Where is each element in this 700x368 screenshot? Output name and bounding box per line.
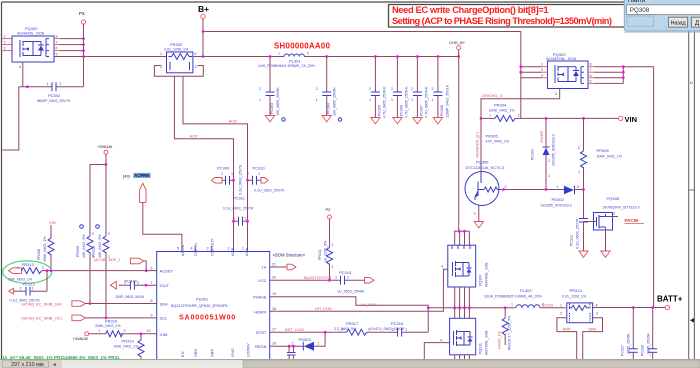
- dialog button back: [668, 17, 687, 27]
- PQ302 pin 3 wire: [3, 50, 13, 52]
- svg-text:1U_0603_25V6K: 1U_0603_25V6K: [337, 290, 365, 294]
- svg-text:PU301: PU301: [196, 297, 209, 302]
- svg-text:3: 3: [195, 65, 197, 69]
- svg-text:PC317: PC317: [621, 345, 625, 356]
- net arrow ACPRN: [140, 183, 146, 202]
- svg-text:1: 1: [335, 276, 337, 280]
- ground PQ308: [601, 251, 610, 257]
- svg-text:1: 1: [317, 342, 319, 346]
- svg-text:2: 2: [307, 52, 309, 56]
- wire B+ top rail: [203, 32, 521, 78]
- svg-text:2: 2: [316, 87, 318, 91]
- svg-text:PC314: PC314: [125, 278, 138, 283]
- PQ303 pin5 wire: [588, 82, 595, 84]
- svg-text:1: 1: [489, 114, 491, 118]
- svg-text:3: 3: [4, 47, 6, 51]
- svg-text:1: 1: [405, 328, 407, 332]
- net arrow TP: [287, 264, 296, 270]
- svg-text:6: 6: [56, 47, 58, 51]
- svg-text:2: 2: [541, 68, 543, 72]
- capacitor PC314 100P_0603_50V8: [110, 278, 156, 299]
- svg-text:[49]: [49]: [123, 173, 130, 178]
- svg-text:DISCHG_O: DISCHG_O: [482, 93, 503, 98]
- wire PQ311 source stubs down: [454, 355, 456, 359]
- PQ306 pin2 wire: [500, 189, 547, 191]
- svg-text:2: 2: [392, 328, 394, 332]
- find dialog (top right): [624, 0, 700, 33]
- svg-text:PC318: PC318: [641, 345, 645, 356]
- wire PHASE / LX_CHG: [270, 297, 429, 308]
- svg-text:8: 8: [56, 35, 58, 39]
- capacitor PC305 4.7U_0805_25V6-K: [369, 57, 387, 119]
- svg-text:1: 1: [332, 265, 334, 269]
- ground PC304: [322, 116, 331, 122]
- PR314 sense yoke SRP/SRN: [557, 318, 577, 359]
- svg-text:17: 17: [272, 328, 276, 332]
- wire PL302 to PR314: [540, 307, 566, 309]
- PQ302 pin 4 gate wire: [22, 62, 24, 87]
- inductor PL302 10UH: [484, 288, 544, 308]
- svg-text:DH_CHG: DH_CHG: [315, 306, 332, 311]
- svg-text:SRP: SRP: [563, 327, 572, 332]
- wire ACDET row: [42, 270, 157, 272]
- svg-text:SRP: SRP: [209, 348, 214, 357]
- svg-text:5: 5: [177, 247, 179, 251]
- wire TP pin 21: [270, 266, 287, 268]
- svg-text:1: 1: [258, 172, 260, 176]
- PQ303 pin1 wire: [521, 66, 542, 68]
- svg-text:ACOK: ACOK: [180, 244, 185, 256]
- resistor PR304 200K_0402_1%: [480, 103, 521, 122]
- svg-text:9: 9: [151, 314, 153, 318]
- capacitor PC310 0.1U_0603_25V7K: [247, 166, 285, 193]
- wire VCC net BQ24727VCC1: [270, 279, 341, 281]
- svg-text:SRN: SRN: [193, 348, 198, 357]
- transistor PQ309 AO4466L_SO8 (high side): [448, 245, 489, 287]
- svg-text:PR311: PR311: [318, 249, 322, 260]
- svg-text:SCL: SCL: [160, 316, 169, 321]
- svg-text:1SS355_SOD323-2: 1SS355_SOD323-2: [540, 204, 572, 208]
- net arrow ADP_I: [130, 258, 143, 264]
- svg-text:GND: GND: [230, 348, 235, 357]
- svg-text:1: 1: [47, 82, 49, 86]
- svg-text:21: 21: [272, 263, 276, 267]
- wire P3 vertical: [83, 24, 85, 56]
- wire SDA row: [85, 303, 157, 305]
- wire CHG_B+ vertical down to PQ309: [458, 50, 460, 231]
- svg-text:2: 2: [92, 232, 94, 236]
- resistor PR309 10K_0402_5%: [76, 225, 94, 304]
- svg-text:0.047U_0603_16V7K: 0.047U_0603_16V7K: [370, 327, 405, 331]
- svg-text:2: 2: [332, 243, 334, 247]
- ground PC303: [265, 116, 274, 122]
- svg-text:6: 6: [590, 74, 592, 78]
- capacitor PC308 2200P_0402_50V1K: [432, 57, 450, 119]
- transistor PQ311 AO4466L_SO8 (low side): [450, 318, 489, 355]
- net arrow VCC: [365, 277, 375, 283]
- svg-text:1SS355_SOD323-2: 1SS355_SOD323-2: [552, 134, 556, 166]
- wire PR302 pin4 to PL301: [193, 56, 284, 58]
- svg-text:[42:48] EC_SMB_CK1: [42:48] EC_SMB_CK1: [22, 316, 64, 321]
- svg-text:2: 2: [613, 212, 615, 216]
- svg-text:AO4407AL_SO8: AO4407AL_SO8: [546, 56, 577, 61]
- svg-text:PR310: PR310: [92, 246, 96, 257]
- wire PD303 to BTST: [319, 332, 326, 346]
- PU301 top pin stubs CMPIN/CMPOUT: [194, 247, 196, 252]
- svg-text:0.1U_0603_25V7K: 0.1U_0603_25V7K: [254, 188, 285, 192]
- svg-text:1: 1: [316, 98, 318, 102]
- svg-text:_0805_25V6K: _0805_25V6K: [647, 333, 651, 357]
- svg-text:PQ306: PQ306: [476, 160, 489, 165]
- svg-text:2: 2: [137, 281, 139, 285]
- diode PD301 1SS355_SOD323-2: [531, 118, 556, 189]
- svg-text:PACIN: PACIN: [625, 218, 639, 223]
- wire BTST / BST_CHG: [270, 331, 347, 333]
- green ellipse highlight: [3, 261, 52, 283]
- svg-text:2: 2: [432, 87, 434, 91]
- svg-text:PQ309: PQ309: [479, 275, 483, 286]
- svg-text:PL301: PL301: [289, 59, 301, 64]
- svg-text:2: 2: [247, 172, 249, 176]
- svg-text:200K_0402_1%: 200K_0402_1%: [597, 154, 623, 158]
- wire ACN sense: [183, 76, 248, 251]
- svg-text:PC304: PC304: [327, 103, 331, 114]
- capacitor PC315 1U_0603_25V6K: [335, 270, 365, 293]
- net arrow ACDET left: [8, 268, 21, 274]
- svg-text:100_0805_25V6K: 100_0805_25V6K: [276, 87, 280, 116]
- diode PD302 1SS355_SOD323-2: [540, 185, 584, 208]
- svg-text:ILIM: ILIM: [160, 332, 168, 337]
- ground PC307: [413, 118, 422, 124]
- PQ303 pin2 wire: [521, 71, 542, 73]
- svg-text:10K_0402_5%: 10K_0402_5%: [82, 234, 86, 258]
- ground PC305: [371, 118, 380, 124]
- svg-text:1: 1: [391, 98, 393, 102]
- resistor PR310 10K_0402_5%: [92, 225, 110, 318]
- svg-text:8: 8: [590, 63, 592, 67]
- REGN cap stubs: [288, 346, 290, 352]
- svg-text:Назад: Назад: [671, 20, 687, 26]
- svg-text:100_0805_25V6K: 100_0805_25V6K: [333, 87, 337, 116]
- svg-text:DTC115EUA_SC70-3: DTC115EUA_SC70-3: [466, 165, 505, 170]
- net arrow EC_SMB_DA1: [72, 301, 85, 307]
- PQ302 pin 8 wire: [54, 38, 60, 40]
- capacitor PC309 0.1U_0603_25V7K: [212, 164, 243, 195]
- capacitor PC311 0.1U_0603_25V7K: [223, 195, 254, 225]
- PQ302 pin 2 wire: [3, 44, 13, 46]
- svg-text:2: 2: [245, 217, 247, 221]
- dialog group box: [627, 16, 654, 26]
- svg-text:_0805_25V6K: _0805_25V6K: [627, 333, 631, 357]
- svg-text:Д: Д: [695, 21, 699, 27]
- svg-text:2CHG: 2CHG: [542, 303, 553, 308]
- svg-text:10_1206_5%: 10_1206_5%: [324, 240, 328, 262]
- svg-text:PC308: PC308: [440, 105, 444, 116]
- svg-text:7: 7: [56, 41, 58, 45]
- PR302 sense yoke: [154, 66, 203, 77]
- svg-text:PD303: PD303: [299, 337, 312, 342]
- svg-text:+3VALW: +3VALW: [97, 144, 113, 149]
- svg-text:19: 19: [272, 292, 276, 296]
- svg-text:+3VALW: +3VALW: [73, 336, 89, 341]
- svg-text:10K_0402_5%: 10K_0402_5%: [98, 234, 102, 258]
- PQ302 pin 1 wire: [3, 38, 13, 40]
- PQ302 pin 6 wire: [54, 50, 60, 52]
- svg-text:18: 18: [272, 307, 276, 311]
- svg-text:100K_0402_1%: 100K_0402_1%: [113, 345, 139, 349]
- svg-text:PR313: PR313: [22, 262, 35, 267]
- svg-text:PQ311: PQ311: [479, 343, 483, 354]
- svg-text:AO4466L_SO8: AO4466L_SO8: [485, 263, 489, 287]
- ground PC306: [393, 118, 402, 124]
- svg-text:2: 2: [548, 159, 550, 163]
- svg-text:SH00000AA00: SH00000AA00: [274, 42, 331, 51]
- svg-text:PC311: PC311: [233, 195, 246, 200]
- svg-text:PR315 4.7_1206_5%: PR315 4.7_1206_5%: [508, 315, 512, 350]
- svg-text:ACN: ACN: [244, 247, 249, 256]
- svg-text:0.1U_0603_25V7K: 0.1U_0603_25V7K: [576, 218, 580, 249]
- svg-text:2: 2: [578, 146, 580, 150]
- pin circle B+: [201, 14, 205, 18]
- svg-text:VCC: VCC: [258, 278, 267, 283]
- svg-text:IOUT: IOUT: [160, 283, 170, 288]
- wire phase rail: [428, 307, 515, 309]
- svg-text:2: 2: [20, 287, 22, 291]
- svg-text:2200P_0402_50V1K: 2200P_0402_50V1K: [445, 84, 449, 118]
- resistor PR314 0.01_1206_1% (battery sense): [560, 288, 598, 323]
- svg-text:BST_CHG: BST_CHG: [285, 327, 304, 332]
- svg-text:PR319: PR319: [122, 339, 135, 344]
- node VIN: [619, 116, 623, 120]
- wire SCL row: [85, 317, 157, 319]
- wire PQ311 drain stubs from phase rail: [454, 308, 456, 319]
- svg-text:16: 16: [272, 342, 276, 346]
- svg-text:PR314: PR314: [570, 288, 583, 293]
- capacitor PC317 _0805_25V6K: [621, 307, 638, 359]
- svg-text:2: 2: [259, 87, 261, 91]
- svg-text:1: 1: [259, 98, 261, 102]
- svg-text:◂: ◂: [53, 362, 56, 368]
- svg-text:4: 4: [195, 52, 197, 56]
- frame tick: [689, 189, 695, 191]
- svg-text:B+: B+: [198, 4, 209, 14]
- wire B+ vertical: [202, 19, 204, 57]
- svg-text:BATT+: BATT+: [657, 295, 683, 304]
- svg-text:PC302: PC302: [48, 93, 61, 98]
- transistor PQ308 2N7002KW_SOT323-3: [584, 196, 640, 251]
- svg-text:2%OFF: 2%OFF: [540, 130, 544, 143]
- svg-text:D: D: [690, 80, 693, 85]
- resistor PR308 390K_0603_1%: [37, 225, 54, 271]
- svg-text:316K_0402_1%: 316K_0402_1%: [95, 324, 121, 328]
- capacitor PC313 0.1U_0603_25V7K: [10, 271, 48, 303]
- wire BATT+ row: [593, 307, 666, 309]
- svg-text:PC315: PC315: [339, 270, 352, 275]
- capacitor PC318 _0805_25V6K: [641, 308, 658, 360]
- svg-text:1: 1: [99, 329, 101, 333]
- svg-text:0.1U_0603_25V7K: 0.1U_0603_25V7K: [239, 164, 243, 195]
- svg-text:4.7U_0805_25V6-K: 4.7U_0805_25V6-K: [405, 86, 409, 118]
- svg-text:200K_0402_1%: 200K_0402_1%: [489, 108, 515, 112]
- svg-text:7: 7: [590, 68, 592, 72]
- svg-text:Need EC write ChargeOption() b: Need EC write ChargeOption() bit[8]=1: [392, 5, 548, 15]
- svg-text:PD301: PD301: [531, 149, 535, 160]
- svg-text:Setting (ACP to PHASE Rising T: Setting (ACP to PHASE Rising Threshold)=…: [392, 16, 612, 26]
- svg-text:VIN: VIN: [49, 220, 56, 225]
- svg-text:ACP: ACP: [230, 247, 235, 256]
- svg-text:PR302: PR302: [170, 42, 183, 47]
- svg-text:1: 1: [32, 287, 34, 291]
- PQ302 pin 5 wire / main rail to PR302: [54, 56, 167, 58]
- svg-text:N0362_1%: N0362_1%: [498, 330, 502, 349]
- diode PD303: [299, 337, 320, 351]
- svg-text:1: 1: [231, 172, 233, 176]
- svg-text:2: 2: [4, 41, 6, 45]
- svg-text:0.1U_0603_25V7K: 0.1U_0603_25V7K: [223, 207, 254, 211]
- wire PC302 to sheet edge: [3, 87, 19, 150]
- capacitor PC302 5600P_0402_25V7K: [19, 57, 84, 104]
- inductor PL301 1UH: [258, 52, 316, 68]
- svg-text:1: 1: [432, 98, 434, 102]
- svg-text:PC312: PC312: [570, 235, 574, 246]
- svg-text:6: 6: [151, 266, 153, 270]
- svg-text:PC313: PC313: [23, 281, 36, 286]
- svg-text:PL302: PL302: [520, 288, 532, 293]
- wire PL301 to CHG_B+: [304, 56, 458, 58]
- svg-text:PR309: PR309: [76, 246, 80, 257]
- svg-text:2: 2: [391, 87, 393, 91]
- transistor PQ303 AO4407AL_SO8: [546, 52, 588, 89]
- wire PQ309 source stubs to phase rail: [454, 287, 456, 308]
- svg-text:ACPRN: ACPRN: [134, 173, 149, 178]
- svg-text:PR317: PR317: [346, 321, 359, 326]
- resistor PR313 59K_0603_1%: [9, 262, 45, 282]
- svg-text:P3: P3: [79, 11, 85, 16]
- PQ303 pin3 wire: [521, 77, 542, 79]
- ground PC308: [433, 118, 442, 124]
- svg-text:AO4466L_SO8: AO4466L_SO8: [485, 331, 489, 355]
- svg-text:4: 4: [441, 265, 443, 269]
- PQ303 pin6 wire: [588, 77, 595, 79]
- svg-text:BQ24727RGRR_QFN20_3P5X3P5: BQ24727RGRR_QFN20_3P5X3P5: [171, 304, 228, 308]
- svg-text:4: 4: [440, 338, 442, 342]
- svg-text:PR316: PR316: [105, 319, 118, 324]
- PQ302 pin 7 wire: [54, 44, 60, 46]
- svg-text:PR308: PR308: [37, 249, 41, 260]
- annotation red box: [389, 5, 627, 28]
- ground PC312: [579, 251, 588, 257]
- svg-text:5: 5: [56, 53, 58, 57]
- sheet border right double line: [688, 2, 690, 359]
- svg-text:2: 2: [577, 185, 579, 189]
- resistor PR302 0.01_1206_1% (current sense): [160, 42, 197, 73]
- svg-text:ACP: ACP: [190, 134, 199, 139]
- pin circle P3: [81, 20, 85, 24]
- svg-text:1: 1: [124, 281, 126, 285]
- svg-text:1: 1: [511, 303, 513, 307]
- svg-text:PC305: PC305: [377, 105, 381, 116]
- capacitor PC304 100_0805_25V6K: [316, 57, 337, 117]
- svg-text:PD302: PD302: [552, 197, 565, 202]
- wire PQ303 to BATT+ vertical: [623, 67, 653, 308]
- svg-text:SRN: SRN: [588, 327, 597, 332]
- wire ILIM row: [120, 333, 157, 335]
- svg-text:Найти: Найти: [628, 0, 645, 4]
- svg-text:VIN: VIN: [625, 115, 638, 124]
- wire PC316 up to phase rail: [427, 308, 429, 332]
- dialog button next (cut): [691, 17, 700, 27]
- svg-text:<BOM Structure>: <BOM Structure>: [273, 252, 306, 257]
- svg-text:LODRV: LODRV: [246, 343, 251, 357]
- wire PQ311 gate: [424, 343, 449, 359]
- svg-text:3: 3: [541, 74, 543, 78]
- svg-text:1: 1: [557, 185, 559, 189]
- svg-text:REGN: REGN: [255, 344, 267, 349]
- svg-text:PC303: PC303: [270, 103, 274, 114]
- wire REGN row: [270, 345, 303, 347]
- svg-text:BTST: BTST: [256, 330, 267, 335]
- svg-text:ACN: ACN: [229, 119, 238, 124]
- capacitor PC316 0.047U_0603_16V7K: [370, 321, 428, 337]
- PQ303 pin7 wire: [588, 71, 595, 73]
- svg-text:PQ308: PQ308: [607, 196, 620, 201]
- wire HIDRV / DH_CHG: [270, 269, 448, 311]
- svg-text:2: 2: [221, 172, 223, 176]
- svg-text:AO4425L_SO8: AO4425L_SO8: [17, 31, 45, 36]
- junction B+: [202, 30, 205, 33]
- svg-text:P2: P2: [326, 207, 332, 212]
- svg-text:TP: TP: [261, 265, 266, 270]
- svg-text:20: 20: [272, 276, 276, 280]
- status bar: [0, 360, 700, 368]
- ground PQ306: [474, 222, 483, 228]
- svg-text:2N7002KW_SOT323-3: 2N7002KW_SOT323-3: [603, 206, 640, 210]
- wire PQ306 base from DISCHG: [480, 118, 482, 171]
- sheet border top: [2, 1, 690, 3]
- svg-text:0.01_1206_1%: 0.01_1206_1%: [562, 295, 587, 299]
- svg-text:1: 1: [548, 174, 550, 178]
- svg-text:1: 1: [278, 52, 280, 56]
- svg-text:VIN#SHDN_Q-1: VIN#SHDN_Q-1: [476, 132, 480, 158]
- svg-text:5: 5: [590, 79, 592, 83]
- svg-text:BQ24727VCC1: BQ24727VCC1: [304, 275, 332, 280]
- svg-text:[42:48] ADP_I: [42:48] ADP_I: [94, 257, 120, 262]
- svg-text:4: 4: [555, 92, 557, 96]
- op-amp U1 / charger IC PU301 BQ24727RGRR: [157, 252, 270, 360]
- frame marker: [690, 318, 694, 323]
- resistor PR311 10_1206_5%: [318, 219, 334, 280]
- svg-text:1: 1: [242, 247, 244, 251]
- svg-text:8: 8: [151, 299, 153, 303]
- svg-text:PC309: PC309: [217, 166, 230, 171]
- svg-text:10: 10: [147, 329, 151, 333]
- svg-text:1: 1: [578, 170, 580, 174]
- svg-text:2: 2: [124, 329, 126, 333]
- svg-text:PC307: PC307: [419, 105, 423, 116]
- capacitor PC312 0.1U_0603_25V7K: [570, 190, 589, 251]
- svg-text:4: 4: [596, 304, 598, 308]
- svg-text:CHG_B+: CHG_B+: [449, 40, 466, 45]
- svg-text:5600P_0402_25V7K: 5600P_0402_25V7K: [37, 99, 71, 103]
- transistor PQ302 AO4425L_SO8: [12, 26, 54, 62]
- wire PQ309 drain bar: [454, 230, 470, 232]
- svg-text:1: 1: [541, 63, 543, 67]
- svg-text:4.7U_0805_25V6-K: 4.7U_0805_25V6-K: [425, 86, 429, 118]
- svg-text:PC310: PC310: [253, 166, 266, 171]
- transistor PQ306 DTC115EUA_SC70-3: [465, 160, 505, 206]
- svg-text:2: 2: [369, 87, 371, 91]
- PQ303 pin4 gate wire / DISCHG_O: [481, 89, 560, 119]
